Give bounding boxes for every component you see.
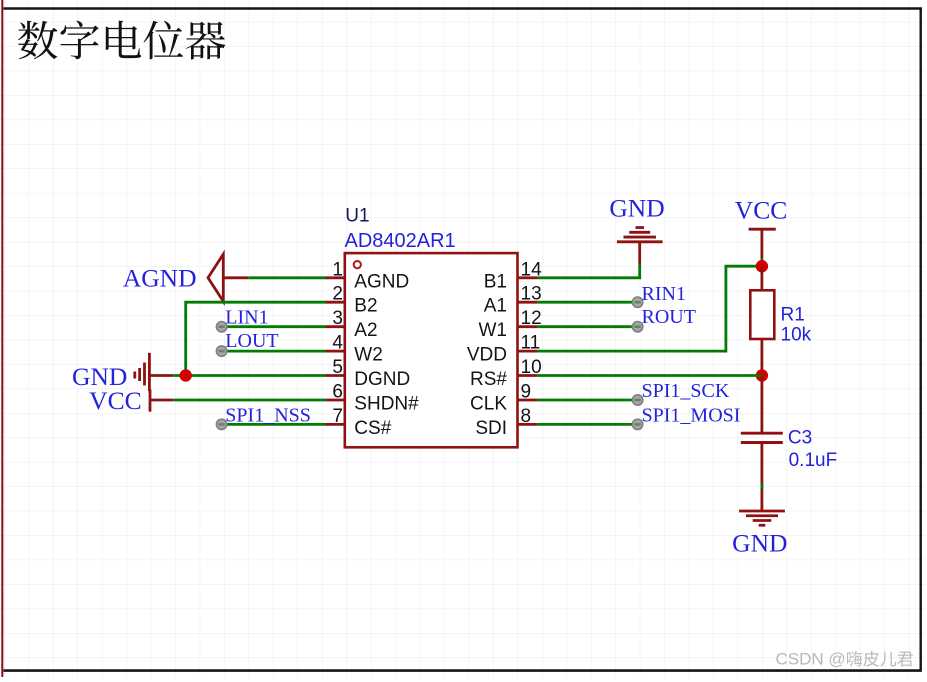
pin-1 marker circle <box>354 261 361 268</box>
svg-text:A1: A1 <box>484 296 507 317</box>
svg-text:CS#: CS# <box>354 418 391 439</box>
svg-text:SDI: SDI <box>475 418 507 439</box>
junction VCC/R1 <box>756 260 768 272</box>
svg-text:9: 9 <box>521 382 532 403</box>
svg-text:SPI1_MOSI: SPI1_MOSI <box>642 404 741 426</box>
svg-text:LOUT: LOUT <box>225 330 278 352</box>
svg-text:AGND: AGND <box>123 264 197 293</box>
wire pin4 LOUT <box>222 350 326 353</box>
pin 6 stub <box>325 399 345 402</box>
svg-text:AGND: AGND <box>354 271 409 292</box>
svg-text:7: 7 <box>332 406 343 427</box>
wire pin12 <box>537 325 637 328</box>
wire pin11 VDD to VCC <box>537 266 762 351</box>
pin 13 stub <box>518 301 538 304</box>
svg-text:GND: GND <box>609 194 664 223</box>
svg-text:VCC: VCC <box>89 386 141 415</box>
svg-text:C3: C3 <box>788 428 812 449</box>
terminal dot LOUT <box>216 346 226 356</box>
ground symbol left <box>135 353 174 391</box>
pin 7 stub <box>325 423 345 426</box>
svg-text:U1: U1 <box>345 206 369 227</box>
wire pin7 CS# <box>222 423 326 426</box>
svg-text:CLK: CLK <box>470 394 507 415</box>
pin 5 stub <box>325 374 345 377</box>
watermark CSDN <box>776 650 913 669</box>
terminal dot SPI1_SCK <box>632 395 642 405</box>
wire pin5 DGND <box>173 374 325 377</box>
svg-text:RS#: RS# <box>470 369 507 390</box>
title 数字电位器 <box>18 21 226 60</box>
wire pin2 to junction <box>186 302 326 375</box>
svg-text:6: 6 <box>332 382 343 403</box>
svg-text:R1: R1 <box>781 305 805 326</box>
svg-text:VDD: VDD <box>467 345 507 366</box>
wire pin10 RS# <box>537 374 762 377</box>
pin 12 stub <box>518 325 538 328</box>
op-amp U1 body AD8402AR1 <box>345 253 518 447</box>
capacitor C3 <box>741 376 783 512</box>
terminal dot ROUT <box>632 322 642 332</box>
wire pin14 to GND <box>537 265 639 278</box>
power VCC top <box>749 229 776 266</box>
pin 1 stub <box>325 276 345 279</box>
sheet border right <box>920 8 922 672</box>
resistor R1 <box>750 266 774 375</box>
pin 2 stub <box>325 301 345 304</box>
wire pin3 LIN1 <box>222 325 326 328</box>
junction R1/C3/RS# <box>756 369 768 381</box>
svg-text:W1: W1 <box>479 320 508 341</box>
svg-text:AD8402AR1: AD8402AR1 <box>345 230 456 252</box>
svg-text:B1: B1 <box>484 271 507 292</box>
svg-text:10k: 10k <box>781 325 812 346</box>
svg-text:2: 2 <box>332 284 343 305</box>
svg-text:DGND: DGND <box>354 369 410 390</box>
pin 10 stub <box>518 374 538 377</box>
svg-text:3: 3 <box>332 308 343 329</box>
svg-text:W2: W2 <box>354 345 383 366</box>
svg-text:SPI1_SCK: SPI1_SCK <box>642 380 730 402</box>
svg-text:8: 8 <box>521 406 532 427</box>
wire pin1 <box>248 276 325 279</box>
svg-text:VCC: VCC <box>735 195 787 224</box>
terminal dot SPI1_NSS <box>216 419 226 429</box>
terminal dot RIN1 <box>632 297 642 307</box>
svg-text:SHDN#: SHDN# <box>354 394 419 415</box>
sheet border bottom <box>4 669 922 672</box>
sheet border top <box>4 7 923 9</box>
svg-text:4: 4 <box>332 333 343 354</box>
port AGND arrow <box>208 254 223 301</box>
pin 4 stub <box>325 350 345 353</box>
wire pin8 SDI <box>537 423 637 426</box>
svg-text:A2: A2 <box>354 320 377 341</box>
wire pin6 SHDN# <box>173 399 325 402</box>
pin 3 stub <box>325 325 345 328</box>
svg-text:RIN1: RIN1 <box>642 283 686 305</box>
terminal dot LIN1 <box>216 322 226 332</box>
junction left <box>180 369 192 381</box>
wire pin9 CLK <box>537 399 637 402</box>
terminal dot SPI1_MOSI <box>632 419 642 429</box>
svg-text:1: 1 <box>332 259 343 280</box>
wire pin13 <box>537 301 637 304</box>
sheet border left (red) <box>1 0 3 677</box>
svg-text:5: 5 <box>332 357 343 378</box>
ground symbol top <box>617 228 663 265</box>
svg-text:LIN1: LIN1 <box>225 306 268 328</box>
svg-text:SPI1_NSS: SPI1_NSS <box>225 404 311 426</box>
svg-text:B2: B2 <box>354 296 377 317</box>
pin 11 stub <box>518 350 538 353</box>
ground symbol bottom <box>739 511 785 525</box>
svg-text:CSDN @: CSDN @ <box>776 650 846 669</box>
svg-text:ROUT: ROUT <box>642 306 696 328</box>
pin 9 stub <box>518 399 538 402</box>
power VCC left bar <box>150 389 173 411</box>
pin 14 stub <box>518 276 538 279</box>
svg-text:11: 11 <box>521 333 541 354</box>
svg-text:0.1uF: 0.1uF <box>789 450 838 471</box>
pin 8 stub <box>518 423 538 426</box>
svg-text:GND: GND <box>732 529 787 558</box>
